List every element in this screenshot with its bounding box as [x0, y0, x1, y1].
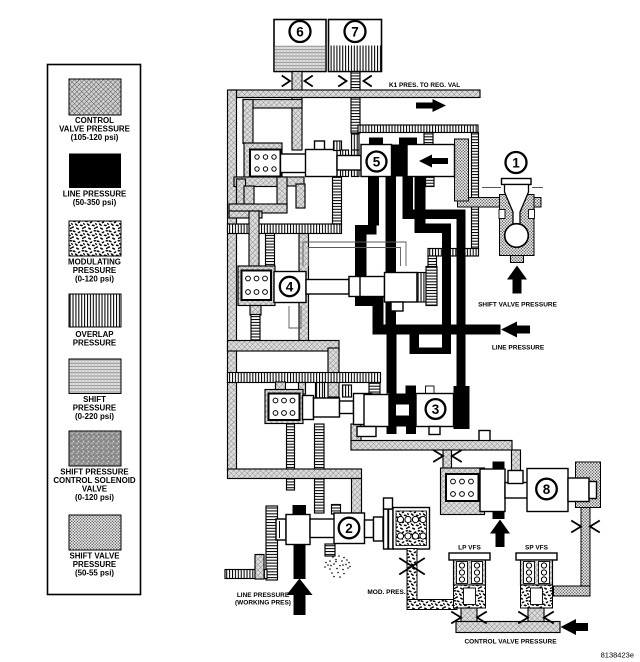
spring chamber frame valve 3	[265, 390, 303, 424]
svg-text:8138423e: 8138423e	[601, 651, 634, 660]
line pressure pipe B from valve 5 port 2 (straight to valve 3)	[386, 176, 397, 394]
valve 4 thin outline below	[289, 306, 301, 328]
accumulator box 6	[274, 20, 326, 72]
ladder from valve 3 down to valve 2	[315, 424, 325, 513]
svg-text:4: 4	[286, 279, 294, 294]
valve 3 top black stub	[406, 386, 417, 395]
svg-text:SP VFS: SP VFS	[525, 545, 549, 552]
svg-text:2: 2	[345, 521, 353, 536]
arrow line pressure in	[501, 322, 530, 338]
ladder stub down to valve 3 right	[369, 383, 380, 395]
manifold slab under valve 5 spring	[234, 177, 282, 187]
exhaust spray dots	[324, 555, 351, 578]
shift valve pressure channel from valve 5 to valve 1	[458, 170, 468, 202]
valve 2 stem 2	[365, 520, 374, 538]
bottom elbow of outer channel	[228, 469, 362, 479]
valve 2 land 3	[374, 517, 384, 541]
ladder left of valve 2	[266, 506, 278, 580]
valve 1 top plate	[502, 179, 532, 185]
valve 3 land with number	[416, 394, 454, 427]
valve 4 white stub below land 4	[391, 302, 403, 311]
stem under box 6	[292, 72, 302, 151]
overlap stub down to valve 4 cap	[428, 256, 437, 267]
valve 5 land 3 with flow arrow	[407, 145, 455, 177]
solenoid SP VFS	[516, 545, 557, 623]
valve 8 number circle	[536, 479, 557, 500]
svg-text:6: 6	[296, 24, 304, 39]
orifice under box 7	[339, 76, 371, 86]
valve 2 black column below	[294, 545, 306, 579]
valve 5 black mid section	[392, 145, 408, 177]
legend swatch: overlap pressure	[69, 294, 121, 327]
svg-text:SHIFT VALVE PRESSURE: SHIFT VALVE PRESSURE	[478, 302, 558, 309]
valve 3 end cap	[303, 396, 314, 420]
stub down to valve 2 top	[352, 479, 362, 514]
valve 4 stem	[306, 280, 349, 295]
valve 8 white stub on top	[508, 471, 523, 484]
gray stub under ladder C	[299, 383, 306, 395]
valve 5 dots end block	[455, 139, 469, 201]
modulating accumulator box	[393, 508, 430, 550]
ladder bottom-left elbow	[225, 570, 267, 579]
valve 8 black stub above	[493, 462, 505, 471]
stem under box 7 (overlap ladder)	[351, 72, 360, 134]
valve 3 black section	[389, 394, 416, 427]
valve 8 spring box	[446, 474, 479, 501]
valve 4 ladder end cap	[426, 267, 437, 306]
arrow line pressure working up	[287, 579, 313, 616]
valve 4 land with number	[274, 272, 306, 303]
modulating pressure channel	[407, 549, 417, 601]
valve 4 land 2	[349, 277, 361, 297]
overlap elbow to valve 4 end cap	[428, 249, 479, 257]
channel B elbow down to valve 3	[328, 348, 339, 397]
svg-text:LINE PRESSURE: LINE PRESSURE	[237, 592, 290, 599]
down leg to valve 8 spring	[443, 450, 452, 475]
orifice at LP stub	[452, 612, 486, 623]
svg-text:(50-350 psi): (50-350 psi)	[73, 198, 117, 207]
valve 2 land 1	[286, 515, 310, 545]
u-loop under line pipe	[410, 335, 452, 355]
spring chamber frame valve 4	[238, 266, 275, 306]
svg-text:3: 3	[432, 402, 440, 417]
valve 5 striped spool section	[341, 150, 349, 177]
spring chamber frame valve 5	[244, 143, 282, 182]
orifice on valve 8 down channel	[572, 521, 599, 532]
valve 4 striped cap	[417, 273, 426, 303]
left outer vertical channel	[228, 90, 237, 470]
svg-text:1: 1	[512, 155, 520, 170]
ladder stub to channel B	[251, 315, 260, 342]
valve 8 land 1	[480, 469, 505, 512]
white stub above valve 8 channel	[479, 431, 490, 443]
valve 1 funnel and ball	[505, 185, 529, 226]
svg-text:(50-55 psi): (50-55 psi)	[75, 569, 114, 578]
channel down to valve 4 spring	[249, 211, 259, 267]
overlap channel down leg to valve 1 area	[472, 133, 479, 249]
valve 2 ladder stub below	[325, 544, 335, 556]
legend swatch: modulating pressure	[69, 221, 121, 256]
valve 4 spring box	[242, 271, 272, 301]
valve 4 number circle	[280, 277, 299, 296]
svg-text:8: 8	[543, 482, 551, 497]
valve 1 body	[500, 195, 535, 256]
orifice on valve 8 channel	[434, 451, 461, 462]
overlap channel horizontal run	[358, 125, 478, 133]
svg-text:5: 5	[373, 154, 381, 169]
valve 5 black top stubs	[369, 138, 383, 148]
valve 3 stem 1	[340, 401, 354, 414]
valve 3 mid land	[364, 395, 389, 427]
line pressure pipe D from valve 5 right port	[415, 176, 452, 354]
valve 2 stem 1	[310, 519, 335, 538]
spring chamber frame valve 8	[441, 468, 485, 515]
valve 2 end cap	[276, 519, 286, 540]
arrow shift valve pressure in	[507, 266, 527, 294]
modulating accumulator spring coils	[397, 516, 426, 539]
down stub to valve 8 top	[512, 450, 521, 471]
overlap stub from box 7 stem onto valve 5	[352, 134, 360, 151]
ladder stub valve 2 top	[332, 505, 341, 515]
legend swatch: shift pressure	[69, 359, 121, 394]
valve 2 black stub above	[293, 505, 307, 515]
ladder stub below valve 3 left	[287, 424, 295, 490]
legend swatch: line pressure	[69, 154, 121, 189]
ladder stub up to valve 5 bottom	[333, 177, 342, 225]
valve 2 number circle	[339, 518, 360, 539]
valve 5 white stub above land 1	[315, 141, 325, 151]
line pressure main pipe	[373, 325, 501, 335]
valve 8 stem	[505, 483, 528, 499]
small gray leg bottom-left	[255, 555, 264, 580]
valve 4 land 4	[385, 273, 418, 303]
connector channel A to channel B	[299, 234, 309, 349]
valve 5 land 2 with number	[361, 145, 392, 177]
valve 1 bottom stub	[511, 256, 524, 263]
valve 8 land right	[568, 478, 589, 502]
svg-text:MOD. PRES.: MOD. PRES.	[367, 589, 405, 596]
overlap ladder channel C	[228, 373, 381, 383]
svg-text:(WORKING PRES): (WORKING PRES)	[235, 600, 291, 607]
valve 3 number circle	[426, 399, 446, 419]
orifice at SP stub	[519, 612, 553, 623]
valve 5 number circle	[367, 152, 387, 172]
svg-text:7: 7	[351, 24, 359, 39]
white stub on valve 3 top	[426, 386, 435, 394]
shift valve pressure channel from valve 8 down	[581, 508, 590, 589]
valve 3 striped stubs above	[316, 383, 325, 399]
valve 8 assembly	[446, 462, 601, 548]
modulating accumulator piston plates	[384, 509, 389, 549]
white stub above mod box	[384, 498, 393, 509]
legend swatch: shift valve pressure	[69, 515, 121, 550]
K1 channel to regulator valve	[230, 90, 480, 98]
valve 8 black stub below	[493, 511, 505, 519]
orifice X on mod channel	[400, 559, 424, 575]
accumulator box 7	[329, 20, 382, 72]
valve 3 bottom port	[351, 424, 361, 442]
valve 3 land 2	[354, 394, 372, 425]
svg-text:(0-120 psi): (0-120 psi)	[75, 493, 114, 502]
valve 1 pressure relief	[478, 152, 558, 309]
valve 5 assembly	[250, 134, 469, 201]
svg-text:(0-220 psi): (0-220 psi)	[75, 412, 114, 421]
stub below valve 4 spring	[250, 306, 261, 316]
arrow up into valve 8	[490, 520, 510, 548]
valve 1 number circle	[506, 152, 527, 173]
arrow control valve pressure in	[561, 619, 589, 635]
legend box	[48, 65, 141, 595]
legend swatch: shift pressure control solenoid valve	[69, 431, 121, 466]
manifold wires under valve 5	[237, 179, 246, 207]
overlap ladder channel under valve 5	[228, 224, 342, 234]
ladder stub channel A to valve 4 spring	[266, 234, 275, 267]
line pressure pipe A from valve 5 port 1	[355, 176, 384, 335]
valve 5 spring box	[250, 150, 281, 177]
valve 4 assembly	[242, 242, 438, 328]
svg-text:K1 PRES. TO REG. VAL: K1 PRES. TO REG. VAL	[389, 82, 460, 89]
channel valve 3 to valve 8	[351, 441, 512, 451]
valve 3 land 1	[314, 398, 340, 417]
hatch channel B	[228, 341, 340, 352]
line pressure pipe C from valve 5 port 3	[403, 176, 466, 386]
valve 3 white stub below mid	[357, 427, 376, 437]
overlap stub onto valve 5 top	[424, 133, 433, 147]
inner vertical channel	[243, 100, 253, 144]
svg-text:LINE PRESSURE: LINE PRESSURE	[492, 345, 545, 352]
valve 5 land 1	[306, 150, 338, 177]
valve 3 assembly	[269, 383, 454, 437]
valve 2 assembly	[235, 498, 429, 615]
control valve pressure bottom channel	[456, 622, 560, 633]
valve 3 right black block	[454, 386, 470, 429]
valve 8 land with number	[527, 469, 568, 512]
svg-text:(0-120 psi): (0-120 psi)	[75, 275, 114, 284]
svg-text:CONTROL VALVE PRESSURE: CONTROL VALVE PRESSURE	[464, 639, 557, 646]
solenoid LP VFS	[449, 545, 490, 623]
svg-text:LP VFS: LP VFS	[458, 545, 481, 552]
svg-text:PRESSURE: PRESSURE	[73, 339, 116, 348]
valve 5 spool stem 1	[281, 154, 309, 173]
orifice under box 6	[283, 76, 313, 86]
valve 4 thin outline channels above	[303, 242, 406, 266]
stub down to valve 3 spring	[276, 382, 286, 390]
valve 3 bottom black stubs	[387, 427, 397, 435]
valve 3 spring box	[269, 394, 300, 421]
legend swatch: control valve pressure	[69, 79, 121, 115]
valve 3 white stub below number land	[429, 427, 440, 435]
ladder stub under valve 5 right	[426, 177, 435, 187]
elbow to SP VFS	[554, 586, 591, 596]
valve 5 ladder stub above	[334, 141, 342, 151]
second horizontal channel	[243, 100, 302, 109]
arrow K1 flow right	[416, 99, 446, 112]
valve 2 land with number	[334, 513, 365, 544]
valve 4 land 3 (over black bar)	[360, 277, 385, 297]
svg-text:(105-120 psi): (105-120 psi)	[71, 133, 119, 142]
valve 8 dots end block	[576, 462, 601, 508]
